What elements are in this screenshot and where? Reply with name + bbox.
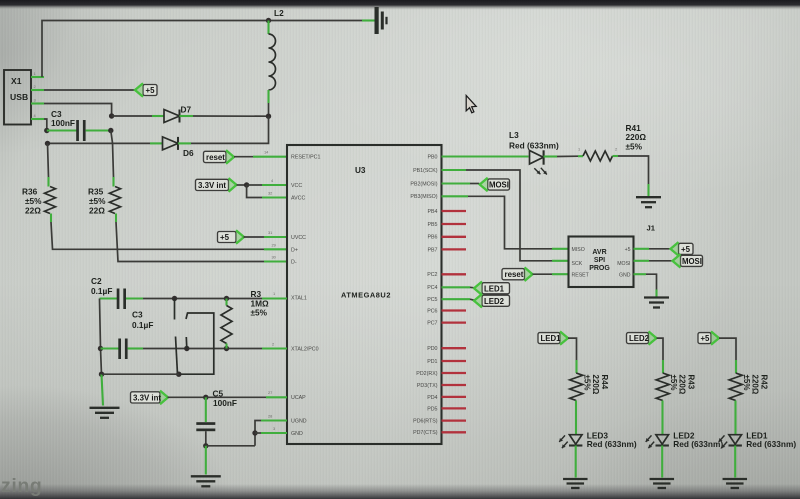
wire X1 pin3 down xyxy=(44,104,112,117)
node crystal bottom junction xyxy=(176,372,181,377)
svg-text:Red (633nm): Red (633nm) xyxy=(587,439,637,449)
svg-text:PD7(CTS): PD7(CTS) xyxy=(413,430,438,436)
svg-text:C3: C3 xyxy=(132,310,143,320)
svg-text:C5: C5 xyxy=(213,388,224,398)
svg-text:PB5: PB5 xyxy=(427,222,437,228)
wire bottom row to C5 xyxy=(206,445,255,447)
unconnected red pin PC2 xyxy=(442,273,467,275)
wire LED LED3 to ground xyxy=(575,446,577,478)
ground under LED1 xyxy=(723,478,748,480)
svg-text:UGND: UGND xyxy=(291,419,307,425)
svg-text:+5: +5 xyxy=(625,247,631,253)
resistor R41 220ohm xyxy=(544,155,558,157)
svg-text:MISO: MISO xyxy=(572,247,585,253)
svg-text:PC6: PC6 xyxy=(427,308,437,314)
svg-text:PB3(MISO): PB3(MISO) xyxy=(410,194,437,200)
svg-text:1: 1 xyxy=(578,147,580,152)
net flag reset at J1 xyxy=(502,269,525,280)
svg-text:D7: D7 xyxy=(181,105,192,115)
svg-text:PB0: PB0 xyxy=(427,154,437,160)
svg-text:ATMEGA8U2: ATMEGA8U2 xyxy=(341,291,391,300)
resistor R3 1Mohm xyxy=(225,299,227,306)
svg-text:3: 3 xyxy=(34,98,36,103)
svg-text:LED2: LED2 xyxy=(484,297,505,306)
svg-text:R36: R36 xyxy=(22,187,38,197)
power flag +5 at X1 xyxy=(44,89,136,91)
svg-text:LED2: LED2 xyxy=(629,334,650,343)
wire LED LED1 to ground xyxy=(734,446,736,478)
svg-text:27: 27 xyxy=(268,390,272,395)
left vertical wire C2 C3 ground xyxy=(100,299,102,375)
svg-text:Red (633nm): Red (633nm) xyxy=(509,140,559,150)
net flag LED1 bottom xyxy=(538,333,560,344)
svg-text:PC4: PC4 xyxy=(427,285,437,291)
svg-text:Red (633nm): Red (633nm) xyxy=(673,439,723,449)
svg-text:MOSI: MOSI xyxy=(682,257,702,266)
svg-text:PROG: PROG xyxy=(589,265,610,272)
svg-text:100nF: 100nF xyxy=(51,118,75,128)
svg-text:22Ω: 22Ω xyxy=(89,206,105,216)
wire to AVCC xyxy=(247,185,262,198)
svg-text:L3: L3 xyxy=(509,130,519,140)
wire C5 to ground xyxy=(205,446,207,475)
net flag reset left xyxy=(204,151,227,162)
diode D7 xyxy=(112,115,152,117)
ground under LED2 xyxy=(650,478,675,480)
wire crystal ground loop xyxy=(102,373,179,375)
node C5 bottom junction xyxy=(203,443,208,448)
node top rail junction xyxy=(266,18,271,23)
svg-text:MOSI: MOSI xyxy=(489,181,509,190)
svg-text:PD2(RX): PD2(RX) xyxy=(416,371,437,377)
crystal Y2 xyxy=(174,299,176,320)
node XTAL1 crystal junction xyxy=(172,296,177,301)
svg-text:29: 29 xyxy=(272,242,276,247)
svg-text:PC2: PC2 xyxy=(427,272,437,278)
svg-text:1: 1 xyxy=(34,71,36,76)
wire 3.3V int to VCC xyxy=(237,184,247,186)
svg-text:100nF: 100nF xyxy=(213,398,237,408)
ground under R41 xyxy=(636,196,661,198)
unconnected red pins PB4-PB7 xyxy=(442,210,467,212)
svg-text:zing: zing xyxy=(1,475,42,497)
svg-text:±5%: ±5% xyxy=(583,375,592,391)
svg-text:D6: D6 xyxy=(183,148,194,158)
svg-text:+5: +5 xyxy=(146,86,156,95)
resistor R35 22ohm xyxy=(111,131,113,144)
svg-text:LED1: LED1 xyxy=(484,284,505,293)
svg-text:R42: R42 xyxy=(760,375,769,390)
resistor R43 220ohm xyxy=(656,373,669,401)
mouse cursor xyxy=(466,96,476,113)
LED LED3 Red 633nm xyxy=(569,435,582,445)
wire PB1 SCK to J1 xyxy=(442,169,467,171)
node C3 left junction xyxy=(44,128,49,133)
svg-text:PD0: PD0 xyxy=(427,346,437,352)
node ground branch junction xyxy=(99,372,104,377)
svg-text:±5%: ±5% xyxy=(626,141,643,151)
svg-text:±5%: ±5% xyxy=(742,375,751,391)
svg-text:Red (633nm): Red (633nm) xyxy=(746,439,796,449)
node L2 bottom junction xyxy=(266,114,271,119)
header J1 AVR SPI PROG xyxy=(569,237,634,288)
svg-text:3: 3 xyxy=(273,426,275,431)
wire R42 to LED xyxy=(734,401,736,435)
wire UGND GND loop xyxy=(255,421,261,446)
svg-text:XTAL1: XTAL1 xyxy=(291,296,307,302)
wire R43 to LED xyxy=(661,401,663,435)
svg-text:31: 31 xyxy=(268,230,272,235)
svg-text:2: 2 xyxy=(34,84,36,89)
IC U3 ATMEGA8U2 xyxy=(287,145,442,444)
svg-text:±5%: ±5% xyxy=(669,375,678,391)
wire LED2 to R43 xyxy=(657,338,664,360)
svg-text:D+: D+ xyxy=(291,247,298,253)
svg-text:1: 1 xyxy=(273,291,275,296)
svg-text:L2: L2 xyxy=(274,8,284,18)
svg-text:SCK: SCK xyxy=(572,261,583,267)
svg-text:22Ω: 22Ω xyxy=(25,206,41,216)
svg-text:0.1µF: 0.1µF xyxy=(132,320,153,330)
wire R44 to LED xyxy=(575,401,577,435)
wire PB0 to LED L3 xyxy=(442,155,529,157)
ground under C5 xyxy=(191,475,221,477)
svg-text:0.1µF: 0.1µF xyxy=(91,286,112,296)
svg-text:C2: C2 xyxy=(91,276,102,286)
svg-text:PD1: PD1 xyxy=(427,359,437,365)
svg-text:RESET: RESET xyxy=(572,272,590,278)
svg-text:+5: +5 xyxy=(220,233,230,242)
diode D6 xyxy=(48,142,151,144)
ground under J1 xyxy=(644,296,669,298)
svg-text:±5%: ±5% xyxy=(25,196,42,206)
svg-text:±5%: ±5% xyxy=(89,196,106,206)
svg-text:PD3(TX): PD3(TX) xyxy=(417,383,438,389)
svg-text:PD5: PD5 xyxy=(427,406,437,412)
net flag MOSI at J1 xyxy=(634,260,650,262)
LED LED2 Red 633nm xyxy=(656,435,669,445)
svg-text:3.3V int: 3.3V int xyxy=(133,393,161,402)
svg-text:2: 2 xyxy=(272,342,274,347)
power flag +5 at J1 xyxy=(634,248,650,250)
node C3 left vertical junction xyxy=(98,346,103,351)
wire LED1 to R44 xyxy=(568,338,577,360)
resistor R36 22ohm xyxy=(48,143,49,177)
wire PB3 MISO to J1 xyxy=(442,195,469,197)
wire J1 GND to ground xyxy=(634,273,647,275)
wire R36 to D+ row xyxy=(51,222,264,249)
resistor R44 220ohm xyxy=(570,373,583,401)
svg-text:±5%: ±5% xyxy=(251,308,268,318)
ground lower left xyxy=(90,407,120,409)
node GND row junction xyxy=(252,430,257,435)
svg-text:UVCC: UVCC xyxy=(291,235,306,241)
net flag +5 bottom xyxy=(698,333,711,344)
ground under LED3 xyxy=(563,478,588,480)
svg-text:VCC: VCC xyxy=(291,183,302,189)
net flag LED2 at PC5 xyxy=(442,298,471,300)
svg-text:AVCC: AVCC xyxy=(291,196,305,202)
svg-text:USB: USB xyxy=(10,92,28,102)
svg-text:PB4: PB4 xyxy=(427,209,437,215)
net flag 3.3V int lower xyxy=(131,392,161,403)
wire R35 to D- row xyxy=(116,222,264,262)
net flag MOSI at PB2 xyxy=(442,182,471,184)
svg-text:PB6: PB6 xyxy=(427,235,437,241)
svg-text:LED1: LED1 xyxy=(541,334,562,343)
svg-text:3.3V int: 3.3V int xyxy=(198,181,226,190)
svg-text:PC5: PC5 xyxy=(427,297,437,303)
svg-text:PB7: PB7 xyxy=(427,247,437,253)
wire XTAL2 row xyxy=(143,348,187,350)
svg-text:GND: GND xyxy=(619,272,631,278)
svg-text:2: 2 xyxy=(615,147,617,152)
svg-text:28: 28 xyxy=(268,414,272,419)
svg-text:AVR: AVR xyxy=(592,249,606,256)
svg-text:SPI: SPI xyxy=(594,257,605,264)
node C3 right junction xyxy=(108,128,113,133)
wire to ground lower left xyxy=(102,374,104,405)
connector X1 USB xyxy=(4,70,31,125)
svg-text:PB1(SCK): PB1(SCK) xyxy=(413,168,438,174)
svg-text:+5: +5 xyxy=(701,334,711,343)
svg-text:reset: reset xyxy=(206,153,225,162)
power flag +5 UVCC xyxy=(218,232,237,243)
wire LED LED2 to ground xyxy=(661,446,663,478)
node D7 row left junction xyxy=(109,113,114,118)
svg-text:X1: X1 xyxy=(11,76,22,86)
svg-text:reset: reset xyxy=(505,270,524,279)
wire X1 pin4 to C3 xyxy=(44,119,47,131)
net flag LED2 bottom xyxy=(627,333,649,344)
svg-text:PB2(MOSI): PB2(MOSI) xyxy=(410,181,437,187)
svg-text:U3: U3 xyxy=(355,166,366,175)
svg-text:RESET/PC1: RESET/PC1 xyxy=(291,155,320,161)
LED L3 Red 633nm xyxy=(530,151,544,165)
node XTAL2 R3 junction xyxy=(224,346,229,351)
svg-text:D-: D- xyxy=(291,260,297,266)
svg-text:PD4: PD4 xyxy=(427,395,437,401)
svg-text:R35: R35 xyxy=(88,187,104,197)
wire X1 pin1 to top rail xyxy=(42,21,362,78)
wire +5 to UVCC xyxy=(244,236,265,238)
svg-text:GND: GND xyxy=(291,431,303,437)
svg-text:UCAP: UCAP xyxy=(291,395,306,401)
svg-text:PD6(RTS): PD6(RTS) xyxy=(413,419,438,425)
net flag 3.3V int upper xyxy=(196,179,229,190)
unconnected red pins PC6 PC7 xyxy=(442,309,467,311)
net flag LED1 at PC4 xyxy=(442,286,471,288)
svg-text:R43: R43 xyxy=(687,375,696,390)
wire +5 to R42 xyxy=(719,338,736,360)
wire XTAL1 row xyxy=(143,298,175,300)
unconnected red pins PD0-PD7 xyxy=(442,347,467,349)
node XTAL2 crystal junction xyxy=(184,346,189,351)
svg-text:R44: R44 xyxy=(600,375,609,390)
wire 3.3V int to UCAP xyxy=(168,396,206,398)
node D6 row left junction xyxy=(45,141,50,146)
svg-text:XTAL2/PC0: XTAL2/PC0 xyxy=(291,347,319,353)
wire reset to RESET/PC1 xyxy=(234,156,253,158)
node XTAL1 R3 junction xyxy=(224,296,229,301)
resistor R42 220ohm xyxy=(729,373,742,401)
LED LED1 Red 633nm xyxy=(729,435,742,445)
wire reset to J1 RESET xyxy=(533,273,553,275)
svg-text:J1: J1 xyxy=(647,224,656,233)
svg-text:MOSI: MOSI xyxy=(617,261,630,267)
svg-text:+5: +5 xyxy=(681,245,691,254)
svg-text:PC7: PC7 xyxy=(427,321,437,327)
ground top right xyxy=(362,19,375,21)
wire R41 to ground xyxy=(618,156,649,184)
svg-text:32: 32 xyxy=(268,191,272,196)
